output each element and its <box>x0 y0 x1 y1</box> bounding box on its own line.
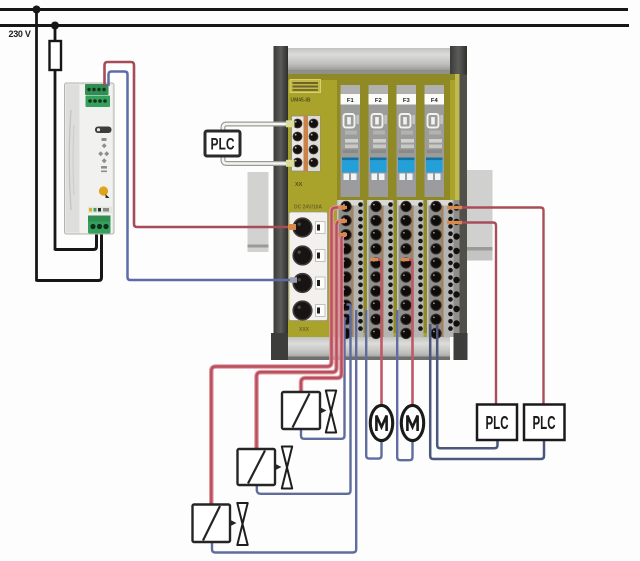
svg-text:F4: F4 <box>431 98 439 104</box>
svg-text:XX: XX <box>295 182 303 188</box>
svg-text:DC 24V/10A: DC 24V/10A <box>294 205 322 211</box>
svg-text:PLC: PLC <box>486 413 509 433</box>
svg-text:PLC: PLC <box>533 413 556 433</box>
svg-text:PLC: PLC <box>211 136 235 154</box>
svg-text:F1: F1 <box>347 98 355 104</box>
svg-text:XXX: XXX <box>299 327 310 333</box>
svg-text:230 V: 230 V <box>9 29 31 39</box>
svg-text:UM45-IB: UM45-IB <box>291 98 311 104</box>
svg-text:F3: F3 <box>403 98 411 104</box>
svg-text:F2: F2 <box>375 98 382 104</box>
